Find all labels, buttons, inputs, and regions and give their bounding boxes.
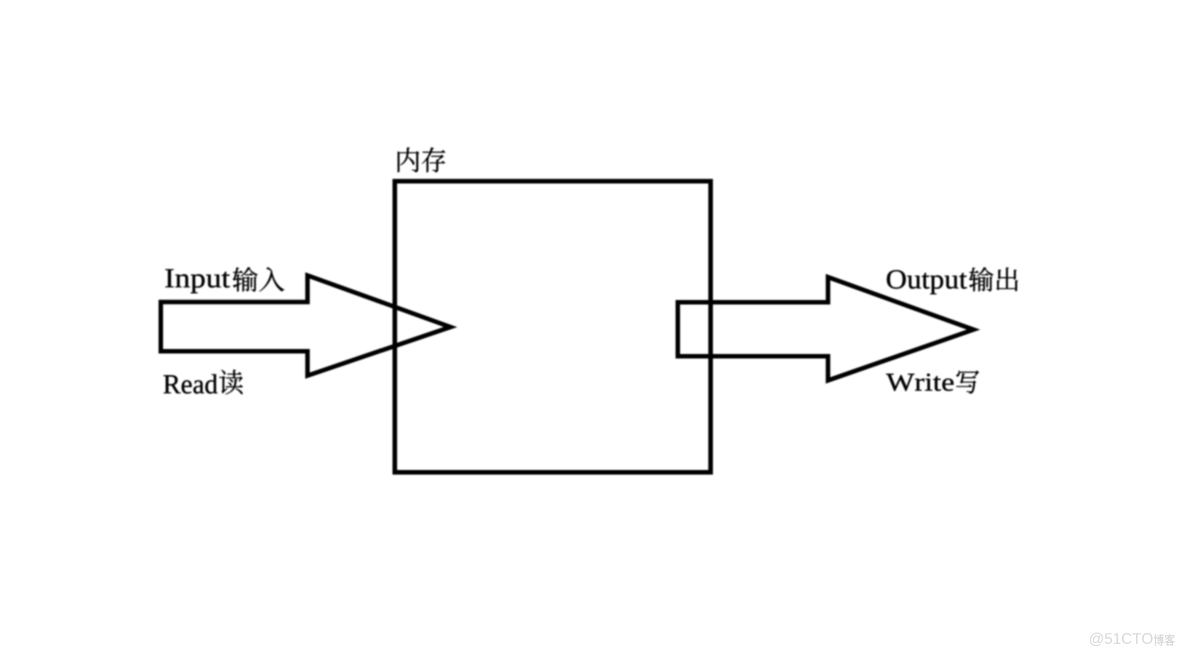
label 输入 xyxy=(233,267,285,292)
label Output xyxy=(887,270,967,294)
label Read xyxy=(164,374,218,393)
watermark @51CTO xyxy=(1090,633,1153,646)
label Input xyxy=(165,269,230,293)
memory box (内存) xyxy=(395,181,711,472)
label 输出 xyxy=(969,267,1018,291)
label 读 xyxy=(219,370,243,395)
watermark 博客 xyxy=(1154,634,1175,646)
label Write xyxy=(886,374,953,391)
label 写 xyxy=(956,371,979,394)
input block arrow xyxy=(161,275,451,375)
label 内存 (memory) xyxy=(398,147,446,172)
output block arrow xyxy=(678,277,974,380)
